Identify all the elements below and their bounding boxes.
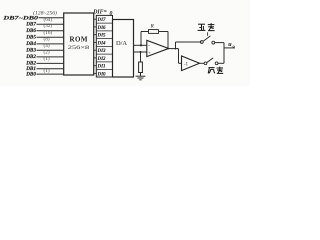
svg-text:DB7: DB7 bbox=[25, 21, 36, 27]
svg-text:DI6: DI6 bbox=[97, 26, 107, 31]
svg-text:D/A: D/A bbox=[116, 40, 127, 47]
svg-text:ROM: ROM bbox=[70, 36, 88, 44]
svg-text:DI2: DI2 bbox=[97, 57, 107, 62]
svg-text:(32): (32) bbox=[44, 22, 53, 29]
svg-text:R: R bbox=[150, 24, 155, 30]
svg-text:(1): (1) bbox=[44, 67, 50, 74]
svg-text:-: - bbox=[148, 44, 150, 49]
svg-text:DI3: DI3 bbox=[97, 49, 107, 54]
svg-text:o: o bbox=[233, 44, 236, 49]
svg-text:DB2: DB2 bbox=[25, 54, 36, 60]
svg-text:DI7: DI7 bbox=[97, 18, 107, 23]
svg-text:DB5: DB5 bbox=[25, 35, 36, 41]
svg-text:DI5: DI5 bbox=[97, 34, 107, 39]
svg-text:DI1: DI1 bbox=[97, 65, 106, 70]
svg-text:DB0: DB0 bbox=[25, 71, 36, 77]
svg-text:+: + bbox=[148, 50, 151, 55]
svg-text:DB4: DB4 bbox=[25, 41, 36, 47]
svg-text:(8): (8) bbox=[44, 35, 50, 42]
svg-text:DB6: DB6 bbox=[25, 28, 36, 34]
svg-text:256×8: 256×8 bbox=[68, 45, 90, 51]
svg-text:DIF=: DIF= bbox=[92, 10, 107, 16]
svg-text:(16): (16) bbox=[44, 29, 53, 36]
svg-text:(1): (1) bbox=[44, 55, 50, 62]
svg-text:(4): (4) bbox=[44, 42, 50, 49]
svg-text:DB3: DB3 bbox=[25, 48, 36, 54]
svg-text:(64): (64) bbox=[44, 16, 53, 23]
svg-text:(2): (2) bbox=[44, 48, 50, 55]
svg-text:DI0: DI0 bbox=[97, 72, 107, 77]
svg-text:-1: -1 bbox=[184, 63, 189, 68]
svg-text:DI4: DI4 bbox=[97, 41, 107, 46]
